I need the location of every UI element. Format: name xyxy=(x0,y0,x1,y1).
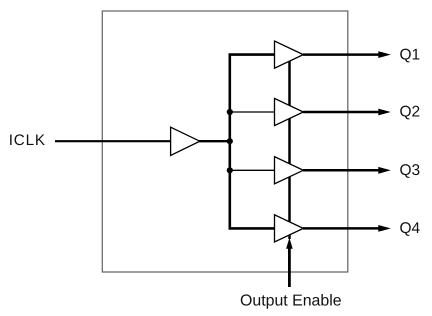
svg-text:Output Enable: Output Enable xyxy=(240,292,342,309)
svg-text:ICLK: ICLK xyxy=(9,132,46,149)
svg-text:Q3: Q3 xyxy=(400,162,421,179)
svg-text:Q2: Q2 xyxy=(400,104,421,121)
svg-text:Q1: Q1 xyxy=(400,46,421,63)
svg-text:Q4: Q4 xyxy=(400,220,421,237)
